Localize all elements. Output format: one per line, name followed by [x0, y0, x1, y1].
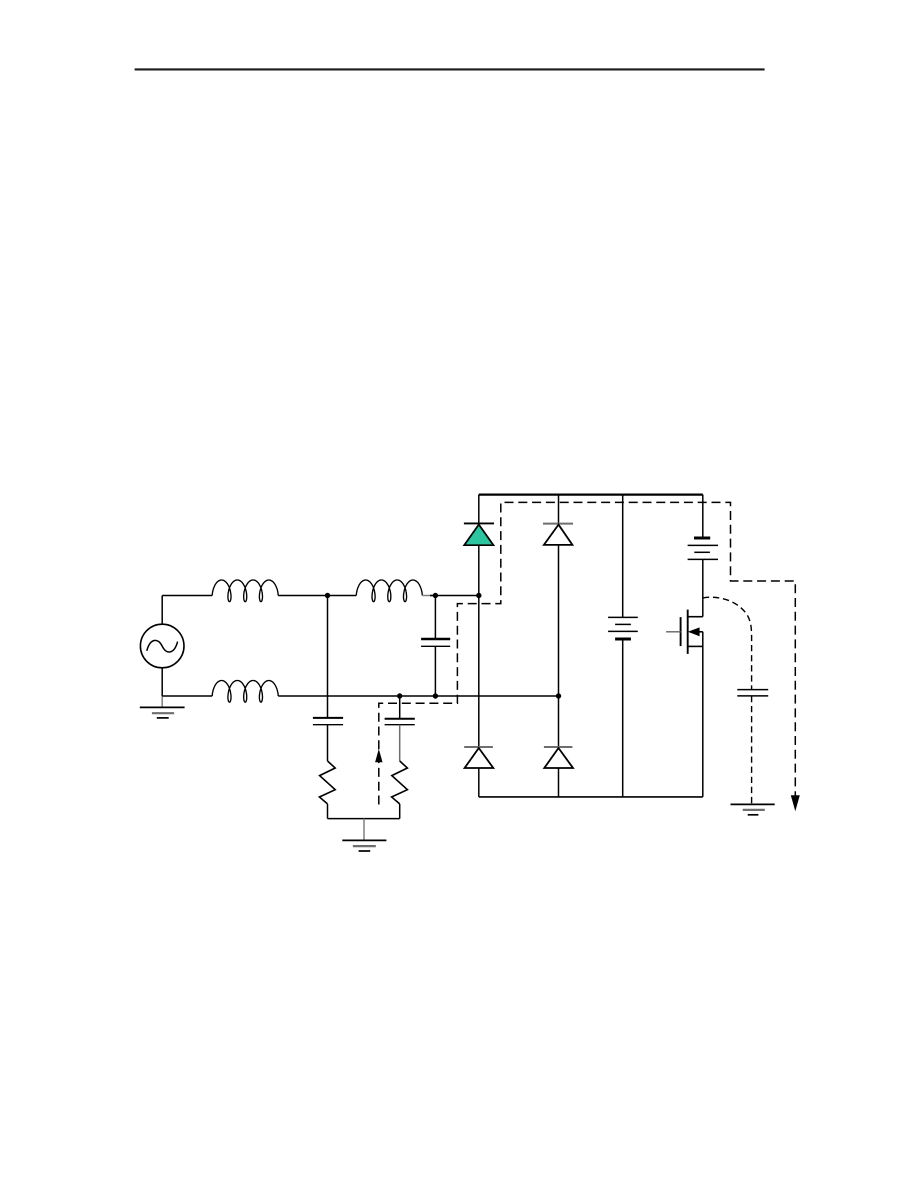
- ground GND3 (parasitic): [731, 804, 775, 814]
- wire: D1 anode to top-rail node: [478, 545, 480, 595]
- transistor Q1 gate lead: [666, 631, 681, 633]
- wire: D2 anode to bottom-rail node: [558, 545, 560, 696]
- wire: X-cap top lead: [434, 596, 436, 640]
- wire: bridge right leg lower: [558, 696, 560, 747]
- inductor L3 (bottom): [212, 681, 278, 703]
- wire: Q1 source vertical to bottom bus: [702, 632, 704, 797]
- diode D4 triangle: [544, 748, 573, 768]
- wire: D3 anode to bottom bus: [478, 768, 480, 797]
- capacitor CY2: [385, 719, 415, 725]
- wire: Y-branch 1 vertical (from top rail): [327, 596, 329, 718]
- wire: R2 bottom lead: [399, 804, 401, 819]
- capacitor CY1: [313, 718, 343, 725]
- transistor Q1 source connection: [688, 645, 703, 647]
- battery V2 plates: [608, 617, 638, 639]
- battery V3 plates: [688, 538, 718, 559]
- ground GND2 (under R1/R2): [342, 840, 386, 851]
- wire: ground stub (Y branch): [363, 819, 365, 841]
- wire: battery V2 bottom lead: [622, 639, 624, 797]
- capacitor Cpar (parasitic): [737, 690, 768, 696]
- wire: bridge right leg upper: [558, 495, 560, 524]
- diode D2 cathode bar: [543, 523, 573, 525]
- node: bottom rail / X-cap bottom: [433, 693, 438, 698]
- transistor Q1 body arrow: [689, 628, 699, 636]
- dashed parasitic path: drain to Cpar: [703, 597, 752, 689]
- node: top rail / Y-branch junction: [325, 593, 330, 598]
- capacitor CX: [421, 639, 450, 646]
- diode D4 cathode bar: [544, 746, 573, 748]
- diode D1 triangle: [464, 525, 493, 546]
- wire: source top lead: [161, 596, 163, 625]
- node: bottom rail / bridge right leg: [556, 693, 561, 698]
- wire: source bottom lead: [161, 668, 163, 696]
- wire: D4 anode to bottom bus: [558, 768, 560, 797]
- wire: bottom bus: [479, 796, 703, 798]
- inductor L2 (top right): [356, 580, 422, 602]
- transistor Q1 channel bar: [687, 610, 689, 654]
- diode D1 (highlighted, green) cathode bar: [464, 522, 494, 524]
- diode D3 cathode bar: [464, 746, 493, 748]
- wire: bottom rail left segment: [162, 695, 212, 697]
- transistor Q1 gate bar: [680, 617, 682, 646]
- diode D3 triangle: [465, 748, 494, 768]
- wire: top rail mid segment: [278, 595, 356, 597]
- transistor Q1 body line: [690, 631, 703, 633]
- wire: top DC bus: [479, 493, 703, 495]
- AC source V1 sine wave: [147, 640, 178, 652]
- wire: top rail right segment: [430, 595, 479, 597]
- dashed wire: Cpar to ground: [751, 696, 753, 805]
- wire: source ground stub: [161, 696, 163, 707]
- dashed noise-current loop (input side): [379, 502, 796, 804]
- wire: CY1 to R1: [327, 725, 329, 761]
- ground GND1 (under source): [140, 707, 185, 718]
- wire: top rail left segment: [162, 595, 212, 597]
- arrowhead: noise current down (right): [791, 795, 800, 811]
- wire: battery V2 top lead: [622, 495, 624, 618]
- diode D2 triangle: [544, 525, 573, 545]
- AC source V1 circle: [140, 624, 184, 668]
- wire: battery V3 top lead: [702, 495, 704, 538]
- inductor L1 (top left): [212, 580, 278, 602]
- resistor R1: [319, 761, 335, 804]
- wire: R1 bottom lead: [327, 804, 329, 819]
- wire: battery V3 to MOSFET drain: [702, 559, 704, 616]
- wire: X-cap bottom lead: [434, 646, 436, 696]
- wire: resistor bottoms joining wire: [328, 818, 400, 820]
- node: bottom rail / Y-branch 2: [397, 693, 402, 698]
- wire: L2 lead to node: [422, 595, 434, 597]
- transistor Q1 drain connection: [688, 616, 703, 618]
- node: top rail / X-cap junction: [433, 593, 438, 598]
- resistor R2: [392, 761, 408, 804]
- wire: CY2 to R2 (gray lead): [399, 725, 401, 761]
- wire: bridge left leg upper: [478, 495, 480, 524]
- wire: bottom rail right segment: [278, 695, 558, 697]
- node: top rail / bridge left leg: [476, 593, 481, 598]
- header rule: [135, 68, 765, 70]
- arrowhead: noise current up (left, between R1/R2): [375, 749, 382, 762]
- wire: bridge left leg lower: [478, 596, 480, 748]
- wire: Y-branch 2 vertical: [399, 696, 401, 719]
